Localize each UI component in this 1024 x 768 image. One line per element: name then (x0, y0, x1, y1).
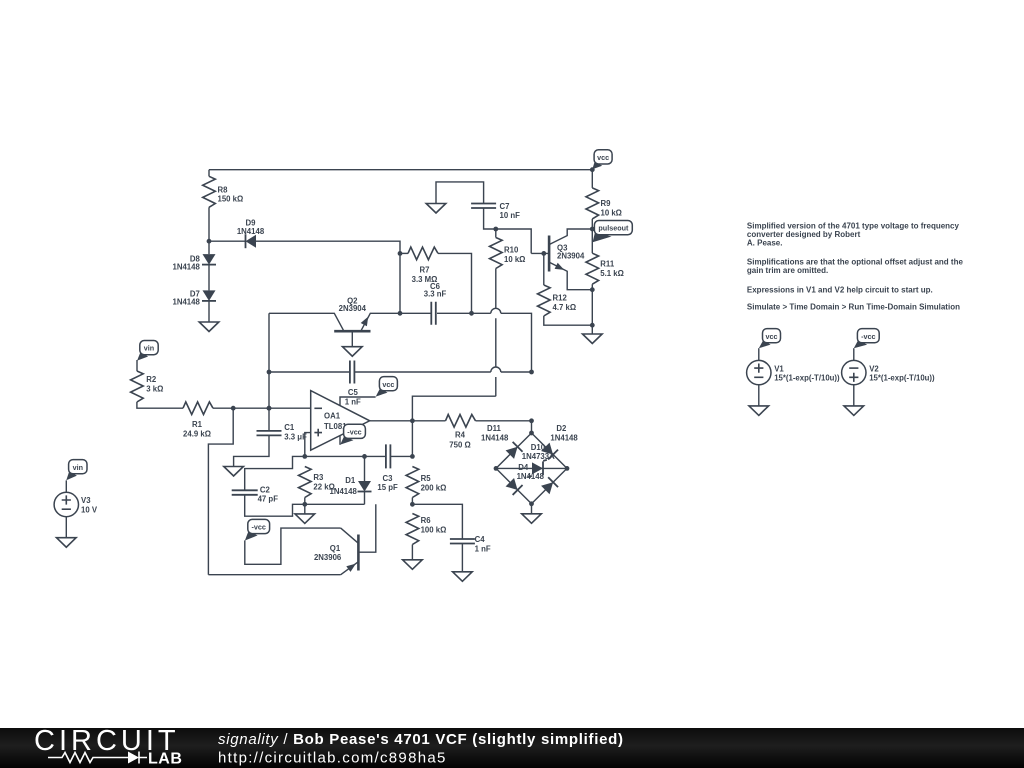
ground below V3 (57, 538, 77, 548)
wire pulseout node down to R11 (591, 229, 593, 253)
wire R3 bottom stub (304, 498, 306, 505)
capacitor C5 (350, 361, 355, 384)
junction R7 left node (398, 251, 403, 256)
wire Q2 collector column down (268, 313, 270, 431)
wire R7 right to C6 right node (438, 253, 472, 313)
junction R3/D1/C2 ground node (302, 502, 307, 507)
svg-text:R12: R12 (553, 293, 568, 302)
wire C7 top hook to ground (436, 182, 484, 204)
svg-text:A. Pease.: A. Pease. (747, 239, 783, 248)
svg-text:R4: R4 (455, 430, 466, 439)
op-amp vee pin wire (339, 436, 341, 445)
transistor Q3 collector lead (550, 229, 593, 244)
svg-text:4.7 kΩ: 4.7 kΩ (553, 303, 577, 312)
ground above-left of C7 (426, 204, 446, 214)
svg-text:-vcc: -vcc (252, 523, 266, 532)
op-amp vcc pin wire (340, 397, 376, 406)
logo resistor-diode glyph (48, 753, 128, 763)
svg-text:200 kΩ: 200 kΩ (421, 484, 447, 493)
capacitor C7 (471, 204, 496, 209)
wire emitter rail C6 left (400, 312, 431, 314)
wire R12 top stub (543, 253, 545, 285)
transistor Q1 collector lead (341, 528, 359, 543)
svg-text:LAB: LAB (148, 751, 182, 768)
wire top rail from R8 to vcc (209, 169, 592, 171)
net flag -vcc (Q1) (245, 531, 258, 540)
svg-text:vcc: vcc (766, 332, 778, 341)
diode bottom-right edge (540, 477, 558, 495)
svg-text:1N4148: 1N4148 (237, 227, 265, 236)
svg-text:Q1: Q1 (330, 544, 341, 553)
wire bridge bottom stub (531, 504, 533, 514)
wire C5 rail right with hop (354, 367, 531, 372)
resistor R1 (183, 402, 213, 415)
op-amp plus input stub (305, 433, 311, 457)
wire Q2 base stem (351, 331, 353, 347)
svg-text:R5: R5 (421, 474, 432, 483)
wire V2 to ground (853, 385, 855, 406)
junction emitter rail / C5 rail (529, 370, 534, 375)
V3 minus symbol (62, 508, 71, 510)
svg-text:Expressions in V1 and V2 help: Expressions in V1 and V2 help circuit to… (747, 286, 933, 295)
svg-text:1 nF: 1 nF (345, 397, 361, 406)
wire R9 top stub (591, 170, 593, 188)
wire vcc flag to V1 (758, 348, 760, 360)
wire R2 bottom elbow to R1 (137, 402, 183, 408)
svg-text:1N4148: 1N4148 (172, 263, 200, 272)
wire output node down to bus (411, 421, 413, 457)
svg-text:http://circuitlab.com/c898ha5: http://circuitlab.com/c898ha5 (218, 750, 447, 767)
net flag pulseout (593, 232, 612, 242)
net flag -vcc (V2) (854, 340, 867, 348)
capacitor C1 (257, 431, 282, 436)
svg-text:47 pF: 47 pF (258, 495, 279, 504)
svg-text:1 nF: 1 nF (475, 545, 491, 554)
svg-text:2N3904: 2N3904 (339, 304, 367, 313)
svg-text:5.1 kΩ: 5.1 kΩ (600, 269, 624, 278)
svg-text:10 kΩ: 10 kΩ (601, 209, 622, 218)
transistor Q2 emitter lead (361, 313, 400, 330)
net flag vcc (op-amp) (376, 388, 388, 396)
V2 plus symbol (849, 373, 858, 382)
svg-text:gain trim are omitted.: gain trim are omitted. (747, 266, 828, 275)
junction collector column at input rail (267, 406, 272, 411)
wire R5 bottom stub (411, 498, 413, 505)
svg-text:D10: D10 (531, 443, 546, 452)
wire V3 to ground (65, 517, 67, 538)
ground below R11/R12 (583, 334, 603, 344)
svg-text:15 pF: 15 pF (377, 483, 398, 492)
diode D2 (top-right edge) (540, 442, 558, 460)
svg-text:1N4148: 1N4148 (172, 298, 200, 307)
wire C1 bottom to ground (234, 435, 269, 466)
transistor Q2 emitter arrow (361, 317, 369, 327)
resistor R7 (408, 247, 438, 260)
ground below R6 (403, 560, 423, 570)
resistor R2 (131, 371, 144, 402)
voltage source V2 (842, 360, 866, 384)
ground below D7 (199, 322, 219, 332)
V1 plus symbol (754, 364, 763, 373)
op-amp minus symbol (314, 407, 322, 409)
wire D1 top stub (364, 456, 366, 481)
wire C2 bottom elbow (245, 495, 305, 516)
svg-text:D11: D11 (487, 424, 502, 433)
junction bridge top vertex (529, 431, 534, 436)
wire feedback left leg (208, 408, 233, 575)
wire C2 jog from bus (245, 456, 305, 490)
wire vin flag to V3 (65, 480, 67, 492)
junction R1/feedback node (231, 406, 236, 411)
wire R8 top stub (208, 170, 210, 177)
svg-text:C3: C3 (383, 474, 394, 483)
svg-text:R7: R7 (420, 265, 430, 274)
svg-text:vcc: vcc (597, 153, 609, 162)
svg-text:R10: R10 (504, 246, 519, 255)
wire R10 top stub (495, 229, 497, 238)
svg-text:C1: C1 (284, 423, 295, 432)
svg-text:R6: R6 (421, 516, 432, 525)
wire -vcc flag to V2 (853, 348, 855, 360)
ground below V2 (844, 406, 864, 416)
junction plus-input/R3 node (302, 454, 307, 459)
transistor Q2 base bar (334, 330, 370, 333)
svg-text:3.3 nF: 3.3 nF (424, 290, 447, 299)
svg-text:V1: V1 (774, 365, 784, 374)
svg-text:D2: D2 (556, 424, 567, 433)
diode bottom-left edge (505, 477, 523, 495)
wire C5 rail left (269, 371, 350, 373)
wire R7 left stub (400, 252, 408, 254)
resistor R3 (299, 467, 312, 498)
resistor R10 (490, 238, 503, 269)
junction R7/C6 right node (469, 311, 474, 316)
svg-text:R3: R3 (313, 473, 324, 482)
wire R7 column down to Q2 emitter rail (399, 253, 401, 313)
svg-text:2N3906: 2N3906 (314, 553, 342, 562)
svg-text:vin: vin (144, 344, 154, 353)
transistor Q3 emitter arrow (555, 263, 565, 270)
svg-text:Simulate > Time Domain > Run T: Simulate > Time Domain > Run Time-Domain… (747, 303, 960, 312)
wire bottom feedback rail (208, 574, 340, 576)
svg-text:signality / Bob Pease's 4701 V: signality / Bob Pease's 4701 VCF (slight… (218, 731, 624, 748)
transistor Q3 emitter lead (550, 263, 593, 290)
resistor R8 (203, 176, 216, 207)
svg-text:1N4733A: 1N4733A (522, 452, 555, 461)
capacitor C6 (431, 302, 436, 325)
wire Q1 base node to C4 (412, 504, 462, 539)
wire R11 bottom to R12 node (591, 284, 593, 325)
svg-text:24.9 kΩ: 24.9 kΩ (183, 429, 211, 438)
svg-text:-vcc: -vcc (347, 427, 361, 436)
junction R10 top tap (493, 227, 498, 232)
svg-text:C7: C7 (500, 202, 510, 211)
diode D11 (top-left edge) (505, 442, 523, 460)
voltage source V3 (54, 492, 78, 516)
op-amp OA1 body (311, 391, 370, 451)
V2 minus symbol (849, 367, 858, 369)
svg-text:10 nF: 10 nF (500, 211, 521, 220)
diode D7 (203, 290, 216, 301)
resistor R6 (406, 514, 419, 545)
junction R11 emitter node (590, 287, 595, 292)
svg-text:15*(1-exp(-T/10u)): 15*(1-exp(-T/10u)) (774, 374, 840, 383)
junction vcc rail top right (590, 167, 595, 172)
junction C1 tap on input rail (267, 406, 272, 411)
junction output/R10/R5 node (410, 418, 415, 423)
resistor R12 (538, 285, 551, 316)
capacitor C2 (232, 490, 258, 495)
svg-text:100 kΩ: 100 kΩ (421, 525, 447, 534)
ground below Q2 base (343, 347, 363, 357)
svg-text:10 V: 10 V (81, 505, 98, 514)
svg-text:R11: R11 (600, 260, 615, 269)
zener D10/D4 (middle) (532, 461, 543, 475)
wire D9 cathode to R8 column (209, 240, 246, 242)
wire V1 to ground (758, 385, 760, 406)
svg-text:10 kΩ: 10 kΩ (504, 255, 525, 264)
wire R1 to op-amp minus (213, 407, 311, 409)
svg-text:R2: R2 (146, 375, 157, 384)
wire D9 anode to R7 column (256, 241, 400, 253)
transistor Q3 base bar (548, 236, 551, 272)
wire D1 bottom stub (364, 492, 366, 505)
op-amp plus symbol (314, 429, 322, 437)
svg-text:R1: R1 (192, 420, 203, 429)
wire D8 to D7 (208, 265, 210, 291)
wire bus C3 to R5 node (390, 455, 412, 457)
wire vin to R2 (136, 360, 138, 371)
net flag -vcc (op-amp) (340, 436, 353, 445)
junction D9 column at emitter rail (398, 311, 403, 316)
svg-text:1N4148: 1N4148 (330, 487, 358, 496)
svg-text:R9: R9 (601, 199, 612, 208)
svg-text:pulseout: pulseout (598, 224, 629, 233)
junction R12 tap on Q3 base (541, 251, 546, 256)
svg-text:OA1: OA1 (324, 412, 341, 421)
wire C4 bottom stub (461, 544, 463, 572)
wire R12 bottom elbow (544, 316, 593, 325)
ground below V1 (749, 406, 769, 416)
net flag vin (V3) (66, 471, 77, 480)
svg-text:2N3904: 2N3904 (557, 251, 585, 260)
diode D9 (246, 235, 257, 248)
junction bridge bottom vertex (529, 501, 534, 506)
transistor Q1 base lead (358, 504, 375, 552)
wire ground stub R3 (304, 504, 306, 514)
ground below R3/D1 (295, 514, 315, 524)
svg-text:1N4148: 1N4148 (517, 472, 545, 481)
svg-text:C5: C5 (348, 388, 359, 397)
V3 plus symbol (62, 495, 71, 504)
junction R4/bridge top column (529, 418, 534, 423)
capacitor C3 (386, 444, 391, 468)
wire op-amp output (370, 420, 446, 422)
wire Q3 base horizontal (531, 252, 549, 254)
resistor R9 (586, 188, 599, 219)
transistor Q1 emitter lead (341, 562, 359, 575)
wire ground stub Q3 (591, 325, 593, 334)
junction collector column at C5 rail (267, 370, 272, 375)
svg-text:vin: vin (73, 463, 83, 472)
ground below bridge (522, 514, 542, 524)
svg-text:C2: C2 (260, 485, 271, 494)
ground below C4 (453, 572, 473, 582)
junction R5 top node (410, 454, 415, 459)
wire -vcc to Q1 collector (245, 528, 341, 564)
junction R8/D9/D8 node (207, 239, 212, 244)
wire C7 bottom to Q3 base corner (484, 208, 532, 253)
wire D7 to ground (208, 301, 210, 322)
wire R4 right to bridge column (476, 420, 532, 422)
svg-text:D1: D1 (345, 476, 356, 485)
svg-text:150 kΩ: 150 kΩ (218, 195, 244, 204)
svg-text:D4: D4 (518, 463, 529, 472)
junction pulseout node (590, 227, 595, 232)
svg-text:15*(1-exp(-T/10u)): 15*(1-exp(-T/10u)) (869, 374, 935, 383)
svg-text:3.3 μF: 3.3 μF (284, 432, 307, 441)
ground below C1 (224, 467, 244, 477)
wire emitter rail C6 right with hop (437, 308, 532, 372)
svg-text:750 Ω: 750 Ω (449, 440, 470, 449)
resistor R5 (406, 467, 419, 498)
net flag vcc (V1) (759, 340, 771, 348)
junction R12/R11 ground node (590, 323, 595, 328)
wire R6 bottom stub (411, 545, 413, 560)
transistor Q1 emitter arrow (346, 564, 356, 572)
svg-text:V2: V2 (869, 365, 879, 374)
wire R10 down long (495, 269, 497, 397)
resistor R11 (586, 253, 599, 284)
net flag vin (R2) (137, 352, 148, 360)
diode D1 (358, 481, 371, 492)
transistor Q1 base bar (357, 535, 360, 571)
junction bridge left vertex (494, 466, 499, 471)
net flag vcc (top right) (592, 162, 602, 170)
wire bridge top stub (531, 421, 533, 433)
capacitor C4 (450, 539, 475, 544)
transistor Q2 collector lead (269, 313, 343, 330)
voltage source V1 (747, 360, 771, 384)
wire ground node to D1 (305, 503, 365, 505)
wire R8 bottom to D8 node (208, 207, 210, 254)
svg-text:C4: C4 (475, 535, 486, 544)
junction R5/R6/Q1-base node (410, 502, 415, 507)
svg-text:vcc: vcc (382, 380, 394, 389)
junction bridge right vertex (565, 466, 570, 471)
svg-text:-vcc: -vcc (861, 332, 875, 341)
svg-text:3 kΩ: 3 kΩ (146, 385, 163, 394)
svg-text:V3: V3 (81, 496, 91, 505)
wire R9 bottom to pulseout node (591, 219, 593, 229)
junction D1 tap (362, 454, 367, 459)
svg-text:R8: R8 (218, 185, 229, 194)
diode bridge frame (496, 433, 567, 504)
svg-text:1N4148: 1N4148 (550, 434, 578, 443)
wire R10 bottom elbow to op-amp output (412, 396, 495, 421)
svg-text:1N4148: 1N4148 (481, 434, 509, 443)
diode D8 (203, 254, 216, 265)
V1 minus symbol (754, 376, 763, 378)
wire bus plus node to C3 (305, 455, 386, 457)
resistor R4 (446, 415, 476, 428)
